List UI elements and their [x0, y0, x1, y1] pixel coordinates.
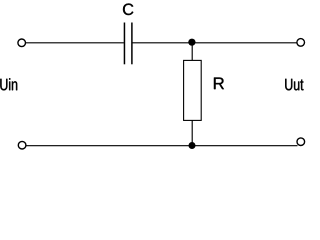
wire resistor-bottom-to-junction vertical segment	[191, 120, 193, 145]
wire bottom segment (input terminal to output terminal)	[26, 145, 298, 147]
terminal input top (open circle)	[18, 39, 26, 47]
wire top-right segment (capacitor to output terminal)	[132, 42, 297, 44]
terminal input bottom (open circle)	[18, 141, 26, 149]
capacitor value label C	[123, 4, 133, 16]
wire top-left segment (input terminal to capacitor)	[26, 42, 124, 44]
capacitor C right plate	[131, 23, 133, 65]
node junction dot bottom (resistor/ground rail)	[189, 142, 196, 149]
capacitor C left plate	[123, 23, 125, 65]
node junction dot top (capacitor/resistor/output)	[188, 39, 195, 46]
resistor value label R	[214, 78, 224, 90]
terminal output bottom (open circle)	[297, 138, 305, 146]
resistor R body	[184, 60, 202, 120]
wire junction-to-resistor-top vertical segment	[191, 42, 193, 60]
terminal output top (open circle)	[297, 39, 305, 47]
node label Uin (input voltage)	[0, 78, 17, 90]
node label Uut (output voltage)	[285, 79, 303, 91]
